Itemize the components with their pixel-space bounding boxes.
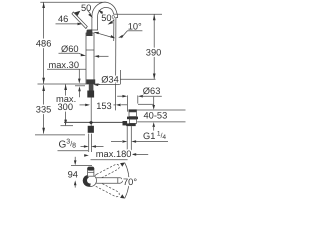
svg-text:390: 390: [146, 48, 162, 58]
40-53 up arrow: [152, 122, 155, 127]
svg-text:max.180: max.180: [96, 149, 132, 159]
svg-text:486: 486: [36, 38, 52, 48]
svg-text:Ø60: Ø60: [61, 44, 79, 54]
plan spout: [94, 178, 123, 183]
G1 1/4 dimension: [111, 141, 122, 143]
46 dimension arrow: [56, 23, 79, 25]
486 top arrow: [42, 2, 45, 8]
40-53 upper line: [138, 103, 154, 105]
svg-text:335: 335: [36, 105, 52, 115]
svg-text:300: 300: [58, 102, 74, 112]
plan lever cap dark: [87, 167, 94, 171]
max180 right arrow: [131, 153, 136, 156]
pop-up rod / hose upper: [90, 98, 92, 127]
svg-text:G11/4: G11/4: [143, 130, 166, 141]
390 dimension line: [153, 14, 155, 79]
svg-text:50o: 50o: [101, 13, 115, 23]
153 dimension: [80, 104, 87, 106]
94 dimension: [74, 157, 76, 162]
max300 bottom tick: [61, 125, 74, 127]
trap locknut dark: [126, 123, 136, 126]
threaded shank: [89, 84, 94, 91]
plan body circle: [85, 175, 97, 187]
G3/8 underline: [58, 150, 89, 152]
deck line: [38, 83, 101, 85]
base escutcheon above deck: [86, 79, 95, 84]
50 radius leader: [88, 11, 90, 14]
column joint line: [86, 49, 94, 51]
trap side spigot: [123, 121, 128, 125]
counter line L3: [137, 121, 185, 123]
svg-text:46: 46: [58, 14, 68, 24]
trap band2: [129, 119, 136, 123]
O63 dimension: [117, 95, 123, 97]
10deg right arrowhead: [118, 35, 123, 38]
lever stick: [72, 12, 87, 29]
hose lower: [88, 134, 90, 152]
O34 underline + arrow to shank: [97, 84, 120, 86]
svg-text:G3/8: G3/8: [59, 139, 77, 151]
svg-text:153: 153: [96, 101, 112, 111]
trap cylinder: [129, 112, 136, 117]
40-53 down arrow: [153, 97, 155, 106]
70 arc: [125, 163, 129, 199]
plan view dashed spout down: [94, 181, 120, 198]
10deg fan line to column: [94, 32, 114, 38]
under-deck tick for max.30: [75, 85, 85, 87]
50deg upper-left arrow: [102, 12, 103, 13]
486 bottom arrow: [42, 78, 45, 84]
lever dark cap: [74, 11, 80, 16]
max30 down arrow above deck: [78, 69, 80, 79]
mounting nut: [87, 91, 94, 98]
O60 underline and arrows: [59, 52, 79, 54]
svg-text:40-53: 40-53: [144, 110, 168, 120]
tailpipe: [126, 126, 128, 156]
335 bottom reference line: [35, 134, 85, 136]
waste horizontal pipe: [64, 121, 123, 123]
max180 underline: [91, 159, 128, 161]
max180 left arrow: [84, 154, 89, 157]
svg-text:94: 94: [68, 169, 78, 179]
trap flange dark: [127, 117, 138, 120]
svg-text:Ø63: Ø63: [143, 86, 161, 96]
svg-text:70°: 70°: [123, 177, 137, 187]
spout tube: [92, 2, 118, 30]
max.30 underline: [47, 68, 86, 70]
plan view dashed spout up: [94, 163, 120, 180]
lever collar (dark): [86, 29, 92, 36]
hose connector nut: [88, 126, 94, 133]
svg-text:Ø34: Ø34: [101, 75, 119, 85]
plan circle dark rim crescent: [83, 175, 91, 186]
counter line L2: [136, 109, 186, 111]
water jet lines: [113, 18, 115, 41]
50deg lower arrow: [111, 20, 114, 22]
max30 up arrow below tick: [78, 86, 81, 91]
svg-text:max.30: max.30: [49, 60, 80, 70]
335 dimension line: [43, 85, 45, 133]
svg-text:10°: 10°: [128, 22, 142, 32]
G3/8 line + arrows: [81, 146, 85, 148]
10deg label underline + leader: [127, 30, 142, 32]
aerator square at spout tip: [114, 14, 118, 17]
plan lever cylinder: [88, 169, 94, 177]
trap top cap: [129, 109, 137, 112]
390 top ref line: [118, 13, 162, 15]
max300 dimension line: [65, 84, 67, 125]
top reference line at faucet max height: [40, 1, 106, 3]
faucet column: [86, 33, 94, 84]
svg-text:50: 50: [81, 3, 91, 13]
486 dimension line: [43, 2, 45, 83]
